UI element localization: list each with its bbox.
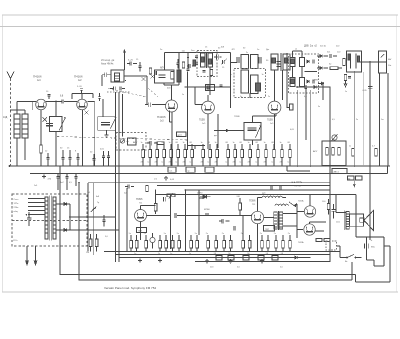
- wire Rd8: [275, 235, 277, 252]
- svg-text:100: 100: [322, 201, 326, 203]
- dark blob conv: [193, 60, 196, 66]
- wire ost corner: [287, 166, 310, 171]
- interstage transformer prim: [274, 212, 278, 229]
- capacitor C9: [148, 102, 150, 107]
- feedback coil L8: [275, 202, 294, 206]
- svg-text:30: 30: [60, 148, 63, 150]
- wire inner box top: [185, 189, 330, 191]
- capacitor Cv1: [102, 220, 105, 222]
- svg-text:470: 470: [48, 179, 52, 181]
- svg-text:2к: 2к: [274, 233, 276, 235]
- svg-text:5к1 Бк: 5к1 Бк: [320, 46, 326, 48]
- wire VT2 collector loop: [72, 94, 93, 100]
- node bus j3: [94, 165, 96, 167]
- fuse box F1: [168, 167, 176, 172]
- wire Rm9 leads: [209, 144, 211, 166]
- wire VT9c to OT: [315, 230, 324, 232]
- wire node to L2: [55, 102, 57, 117]
- osc coil inner: [115, 73, 120, 81]
- capacitor C5: [76, 158, 79, 160]
- APC cluster loop: [155, 70, 175, 83]
- wire Rm17 leads: [273, 144, 275, 166]
- speaker horn: [364, 211, 373, 231]
- box H2 device: [332, 169, 347, 174]
- wire Rd2: [223, 235, 225, 252]
- svg-text:1к: 1к: [345, 91, 347, 93]
- IF label box: [177, 132, 187, 137]
- capacitor C-tank: [101, 123, 110, 125]
- svg-text:0,05: 0,05: [290, 129, 295, 131]
- wire VT9 collector: [310, 222, 327, 224]
- svg-text:дет: дет: [214, 135, 217, 137]
- wire C21 to driver: [177, 215, 252, 217]
- wire bottom row3: [119, 257, 310, 259]
- capacitor C-L2: [46, 124, 53, 126]
- svg-text:15: 15: [205, 47, 208, 49]
- trimmer arrow tank: [111, 117, 116, 128]
- wire driver emitter: [257, 224, 259, 252]
- wire VT3 collector: [172, 82, 180, 100]
- wire riser x282: [282, 70, 284, 100]
- wire right edge x384: [383, 237, 385, 266]
- capacitor Cc2: [195, 56, 198, 58]
- fb box2: [228, 256, 234, 261]
- resistor R-T1low: [210, 70, 212, 76]
- wire osc out: [124, 76, 147, 105]
- svg-text:6–25: 6–25: [128, 60, 134, 62]
- converter coil dark: [177, 70, 181, 82]
- svg-text:5к: 5к: [318, 106, 320, 108]
- svg-text:АВС1: АВС1: [334, 170, 340, 173]
- svg-text:кт1: кт1: [154, 179, 158, 181]
- IF filter box: [206, 85, 215, 91]
- resistor Rm15: [257, 150, 260, 158]
- resistor Rm12: [234, 150, 237, 158]
- svg-text:15: 15: [136, 59, 139, 61]
- wire Rm12 leads: [234, 144, 236, 166]
- svg-text:Π416б: Π416б: [74, 75, 83, 79]
- wire det out: [360, 61, 379, 63]
- resistor Rm14: [249, 150, 252, 158]
- diode D4: [320, 67, 322, 70]
- node bus j4: [115, 165, 117, 167]
- resistor Rm9: [209, 150, 212, 158]
- transformer winding bar a: [45, 197, 48, 239]
- page bottom edge: [2, 291, 398, 293]
- node bus j9: [275, 165, 277, 167]
- resistor Ra4: [165, 241, 168, 249]
- wire battery top: [366, 237, 368, 241]
- wire L1 top to base: [17, 102, 36, 115]
- resistor Ra8: [196, 241, 199, 249]
- resistor Ra0: [130, 241, 133, 249]
- node H1 left end: [9, 165, 11, 167]
- node det out: [369, 61, 371, 63]
- IF T5 winding b: [283, 54, 290, 70]
- node bus j17: [118, 227, 120, 229]
- ratio det can dash: [289, 54, 319, 93]
- wire rail x297: [297, 90, 299, 166]
- diode D4b: [322, 82, 324, 85]
- svg-text:1к: 1к: [248, 142, 250, 144]
- wire rail x306: [305, 88, 307, 140]
- svg-text:блок ЧМ 4к: блок ЧМ 4к: [101, 63, 114, 66]
- wire VT8 collector: [309, 195, 311, 206]
- svg-text:МкГ: МкГ: [388, 59, 393, 61]
- speaker box: [350, 214, 364, 226]
- page left edge: [2, 15, 4, 292]
- fb box1: [216, 256, 222, 261]
- resistor Rd2: [223, 241, 226, 249]
- svg-text:6к8: 6к8: [221, 47, 225, 49]
- svg-text:400: 400: [167, 88, 171, 90]
- capacitor C13: [313, 59, 315, 63]
- wire VT5 leads: [274, 70, 276, 149]
- node bus j16: [115, 200, 117, 202]
- wire driver collector: [258, 198, 287, 212]
- wire mid vertical B: [118, 92, 120, 262]
- wire AFC arrow: [123, 50, 125, 70]
- svg-text:1к: 1к: [233, 142, 235, 144]
- svg-text:АРУ: АРУ: [313, 150, 318, 153]
- IF T5 blobs: [272, 58, 276, 63]
- svg-text:Π41А: Π41А: [298, 200, 304, 203]
- capacitor C-discr: [248, 128, 257, 130]
- node bus j11: [309, 165, 311, 167]
- node bus j15: [379, 165, 381, 167]
- svg-text:68: 68: [256, 142, 259, 144]
- svg-text:Сеть: Сеть: [14, 199, 20, 201]
- ground G4: [164, 176, 168, 180]
- wire out bases: [283, 204, 305, 238]
- wire preamp emitter: [140, 222, 142, 241]
- node osc out: [125, 80, 127, 82]
- svg-text:8: 8: [75, 151, 77, 153]
- transformer primary winding: [28, 199, 45, 215]
- wire return A: [60, 166, 356, 275]
- svg-text:10: 10: [46, 91, 49, 93]
- capacitor Cv5: [277, 62, 281, 64]
- wire det mid: [293, 67, 318, 78]
- svg-text:1к2: 1к2: [78, 80, 82, 82]
- wire Rm7 leads: [191, 144, 193, 166]
- capacitor Cx1: [138, 66, 141, 68]
- wire L3 to VT3: [170, 111, 173, 146]
- svg-text:общ: общ: [14, 211, 18, 213]
- det winding d: [300, 78, 305, 87]
- svg-text:10к: 10к: [86, 252, 89, 254]
- output transformer: [346, 212, 349, 230]
- page top edge: [2, 14, 398, 16]
- wire mid vertical A: [115, 92, 117, 262]
- node base junction: [55, 101, 57, 103]
- svg-text:5к: 5к: [164, 233, 166, 235]
- svg-text:5к: 5к: [195, 233, 197, 235]
- wire return B: [79, 183, 352, 280]
- transistor VT1: [36, 99, 47, 110]
- node base feed: [155, 189, 157, 191]
- svg-text:15: 15: [67, 148, 70, 150]
- wire Rd10: [289, 235, 291, 252]
- diode D6: [64, 203, 66, 206]
- electrolytic C22: [150, 237, 155, 242]
- resistor Rm20: [157, 142, 164, 145]
- wire ot top: [336, 195, 346, 213]
- wire rail x354: [353, 71, 355, 166]
- svg-text:1м: 1м: [381, 119, 384, 121]
- resistor Rv1: [89, 239, 92, 247]
- diode D3: [320, 55, 322, 58]
- svg-text:АРУ: АРУ: [133, 141, 138, 144]
- resistor Ra2: [145, 241, 148, 249]
- fb box4: [258, 256, 264, 261]
- svg-text:1к5: 1к5: [270, 123, 274, 125]
- osc top cluster caps: [114, 86, 116, 90]
- ground Gb3: [205, 259, 209, 263]
- wire battery bottom: [367, 251, 385, 266]
- capacitor C6: [62, 99, 64, 103]
- wire Ra5: [172, 235, 174, 252]
- capacitor Cx2: [155, 71, 157, 75]
- agc box: [322, 141, 346, 166]
- svg-text:10,0: 10,0: [336, 222, 341, 224]
- svg-text:5,0: 5,0: [105, 236, 109, 238]
- ground Gb4: [229, 259, 233, 263]
- svg-text:0БЕ0: 0БЕ0: [197, 193, 203, 195]
- capacitor Cc1: [186, 69, 189, 71]
- node bus j8: [232, 165, 234, 167]
- wire preamp out: [147, 195, 171, 249]
- wire rail x310: [309, 90, 311, 166]
- svg-text:0,05: 0,05: [363, 90, 368, 92]
- wire bottom row1: [104, 251, 340, 253]
- battery B1: [364, 241, 368, 251]
- resistor Rm2: [156, 150, 159, 158]
- fuse box F3: [205, 167, 214, 172]
- capacitor C12b: [259, 57, 261, 64]
- resistor Rm11: [227, 150, 230, 158]
- wire Rd4: [242, 235, 244, 252]
- node bus j7: [208, 165, 210, 167]
- wire Ra1: [136, 235, 138, 252]
- svg-text:Π416б: Π416б: [157, 115, 166, 119]
- resistor R20: [327, 204, 330, 210]
- wire to osc tank: [87, 102, 94, 167]
- node rect out: [69, 216, 71, 218]
- wire Ra7: [190, 235, 192, 252]
- wire discr down: [252, 140, 254, 145]
- capacitor Cu3: [107, 156, 110, 158]
- svg-text:6,8: 6,8: [60, 96, 64, 98]
- node agc b: [329, 86, 331, 88]
- transistor VT9: [304, 224, 315, 235]
- wire Rm6 leads: [184, 144, 186, 166]
- agc inner pot: [120, 139, 124, 143]
- trimmer X1: [43, 117, 47, 121]
- wire VT2 emitter: [82, 110, 84, 166]
- wire VT4 base feed: [195, 87, 203, 105]
- capacitor C14: [313, 79, 315, 83]
- osc shield dash: [107, 91, 131, 93]
- svg-text:5к: 5к: [129, 233, 131, 235]
- svg-text:2к0: 2к0: [336, 46, 340, 48]
- svg-text:дроб: дроб: [178, 135, 182, 137]
- capacitor C7t: [80, 89, 83, 91]
- wire AGC left: [185, 86, 231, 88]
- node mid bottom: [170, 251, 172, 253]
- trimmer X4: [142, 77, 146, 81]
- wire rail x330: [329, 87, 331, 262]
- capacitor C4: [68, 158, 71, 160]
- IF can T3 dash: [234, 69, 266, 98]
- svg-text:+: +: [371, 238, 373, 242]
- wire conv coil up: [164, 53, 230, 71]
- svg-text:ГМТ: ГМТ: [265, 229, 270, 231]
- wire Rm11 leads: [227, 144, 229, 166]
- capacitor C9b: [130, 61, 132, 65]
- node riser agc: [230, 86, 232, 88]
- resistor Rd7: [267, 241, 270, 249]
- resistor Rd4: [242, 241, 245, 249]
- capacitor C-T1low: [202, 71, 205, 73]
- trimmer T2cap: [223, 60, 225, 64]
- svg-text:5с: 5с: [240, 96, 242, 98]
- capacitor C2: [46, 158, 49, 160]
- wire enclosure top: [155, 195, 356, 238]
- transistor VT7: [251, 211, 263, 223]
- ground Gb1: [138, 259, 142, 263]
- svg-text:68: 68: [226, 142, 229, 144]
- wire to VT3 base: [152, 104, 166, 106]
- resistor Ra3: [159, 241, 162, 249]
- svg-text:1к1: 1к1: [34, 185, 38, 187]
- svg-text:1к: 1к: [183, 142, 185, 144]
- wire Ra2: [145, 235, 147, 252]
- resistor Rm13: [241, 150, 244, 158]
- wire IF out elbow: [188, 146, 206, 150]
- svg-text:0,1: 0,1: [226, 162, 230, 164]
- wire Rm10 leads: [216, 144, 218, 166]
- wire base stub: [32, 102, 34, 111]
- tuning gang diag b: [148, 88, 158, 97]
- input coil L1b: [22, 114, 28, 138]
- svg-text:0,1: 0,1: [240, 162, 244, 164]
- pot P2: [332, 135, 337, 140]
- wire x185 vert: [184, 190, 186, 252]
- trimmer X2: [84, 110, 88, 114]
- svg-text:ФΠ: ФΠ: [232, 48, 236, 51]
- node bus j5: [118, 173, 120, 175]
- resistor Rm7: [191, 150, 194, 158]
- resistor Raf1: [146, 186, 149, 192]
- svg-text:1к: 1к: [262, 74, 264, 76]
- wire VT4 leads: [208, 67, 210, 149]
- capacitor Cm1: [150, 141, 152, 146]
- resistor Rd5: [248, 241, 251, 249]
- svg-text:Гр: Гр: [97, 202, 100, 204]
- resistor R3h: [330, 67, 338, 70]
- svg-text:0,1: 0,1: [208, 162, 212, 164]
- wire VT1 emitter: [40, 110, 42, 145]
- wire Rm19 leads: [289, 144, 291, 166]
- wire Ra3: [159, 235, 161, 252]
- type box VT7: [264, 226, 275, 232]
- svg-text:240: 240: [237, 196, 241, 198]
- resistor Ra5: [171, 241, 174, 249]
- wire bus H2: [30, 173, 388, 175]
- svg-text:0,5: 0,5: [332, 119, 336, 121]
- wire bottom row2: [116, 254, 331, 256]
- mains plug arrows: [26, 261, 37, 265]
- wire T3 bottom: [249, 93, 251, 98]
- wire antenna tap link: [11, 110, 26, 114]
- wire tank right: [122, 94, 124, 137]
- resistor Rd8: [275, 241, 278, 249]
- svg-text:1к5: 1к5: [202, 123, 206, 125]
- IF T2 tank b: [251, 55, 259, 69]
- det winding a: [290, 58, 295, 67]
- ground G2: [106, 130, 108, 133]
- svg-text:1к0: 1к0: [337, 52, 341, 54]
- svg-text:2к: 2к: [288, 233, 290, 235]
- transistor VT8: [304, 206, 315, 217]
- svg-text:2к: 2к: [260, 233, 262, 235]
- trimmer arrow L2: [59, 117, 65, 130]
- wire Rd5: [249, 235, 251, 252]
- svg-text:5мк: 5мк: [124, 193, 127, 195]
- capacitor Cd2: [234, 226, 236, 231]
- svg-text:0,5: 0,5: [170, 170, 173, 172]
- svg-text:68: 68: [208, 142, 211, 144]
- capacitor C12a: [237, 57, 239, 63]
- wire rectifier a: [56, 204, 70, 230]
- svg-text:АΠЧ: АΠЧ: [160, 67, 165, 70]
- wire conv node down: [187, 53, 189, 69]
- wire bottom H4: [157, 185, 330, 187]
- resistor Rm8: [202, 150, 205, 158]
- svg-text:0,1: 0,1: [162, 162, 166, 164]
- fb box5: [272, 256, 278, 261]
- svg-text:пр: пр: [188, 170, 190, 172]
- wire conv out down: [187, 72, 189, 151]
- IF T3 blobs: [256, 83, 261, 91]
- wire vert x127: [126, 188, 128, 252]
- wire preamp collector: [141, 206, 156, 210]
- node bus j13: [343, 165, 345, 167]
- diode fb: [295, 256, 297, 259]
- svg-text:Π39б: Π39б: [136, 197, 143, 201]
- svg-text:1к3: 1к3: [160, 120, 164, 122]
- wire Rm5 leads: [177, 144, 179, 166]
- tuning gang dash link: [57, 137, 187, 141]
- resistor Rm1: [149, 150, 152, 158]
- node bus j2: [82, 165, 84, 167]
- resistor Rm5: [177, 150, 180, 158]
- diode D5: [314, 86, 316, 89]
- wire Rd0: [207, 235, 209, 252]
- capacitor C1t: [47, 95, 50, 97]
- node bus j19: [185, 189, 187, 191]
- wire left driver area: [199, 190, 203, 235]
- svg-text:5,0: 5,0: [280, 267, 284, 269]
- capacitor C16: [368, 87, 373, 89]
- resistor Ra1: [135, 241, 138, 249]
- IF T5 core: [280, 53, 282, 71]
- wire discr up: [253, 114, 277, 123]
- svg-text:0,5: 0,5: [304, 96, 308, 98]
- resistor Rm4: [170, 150, 173, 158]
- volume pot arrow: [91, 207, 96, 213]
